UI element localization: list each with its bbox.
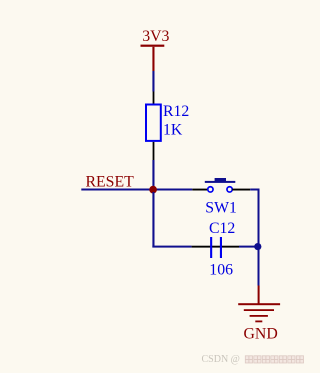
switch SW1 actuator bar [205,181,236,183]
resistor R12 body [146,105,161,141]
switch SW1 pin 1 [192,189,208,191]
wire to capacitor C12 [152,246,191,248]
capacitor C12 plate right [220,237,222,258]
capacitor C12 plate left [210,237,212,258]
junction RESET node [149,186,157,194]
switch SW1 contact circle left [208,187,213,192]
svg-text:CSDN @: CSDN @ [202,354,240,365]
wire C12 to right rail [239,246,258,248]
svg-text:C12: C12 [209,220,235,237]
svg-text:R12: R12 [163,103,189,120]
ground stem [258,286,260,305]
wire SW1 to right rail [250,189,259,191]
svg-text:SW1: SW1 [205,199,237,216]
wire R12 to RESET node [152,160,154,190]
resistor R12 pin 1 [153,92,155,105]
watermark characters [245,356,303,363]
svg-text:3V3: 3V3 [142,28,169,45]
wire 3V3 to R12 [152,71,154,92]
ground bar 1 [238,303,280,305]
wire RESET node down [152,192,154,248]
switch SW1 actuator nub [215,178,226,181]
junction right rail node [254,243,261,250]
svg-text:1K: 1K [163,122,183,139]
capacitor C12 pins [192,246,239,248]
switch SW1 contact circle right [227,187,232,192]
svg-text:RESET: RESET [86,173,135,190]
wire right rail vertical [258,189,260,286]
ground bar 3 [250,315,268,317]
wire RESET horizontal [81,189,192,191]
ground bar 2 [244,309,274,311]
power port 3V3 stem [152,47,154,71]
power port 3V3 bar [141,45,165,47]
ground bar 4 [255,321,262,323]
switch SW1 pin 2 [232,189,250,191]
resistor R12 pin 2 [153,142,155,160]
svg-text:106: 106 [209,262,233,279]
svg-text:GND: GND [244,326,278,343]
